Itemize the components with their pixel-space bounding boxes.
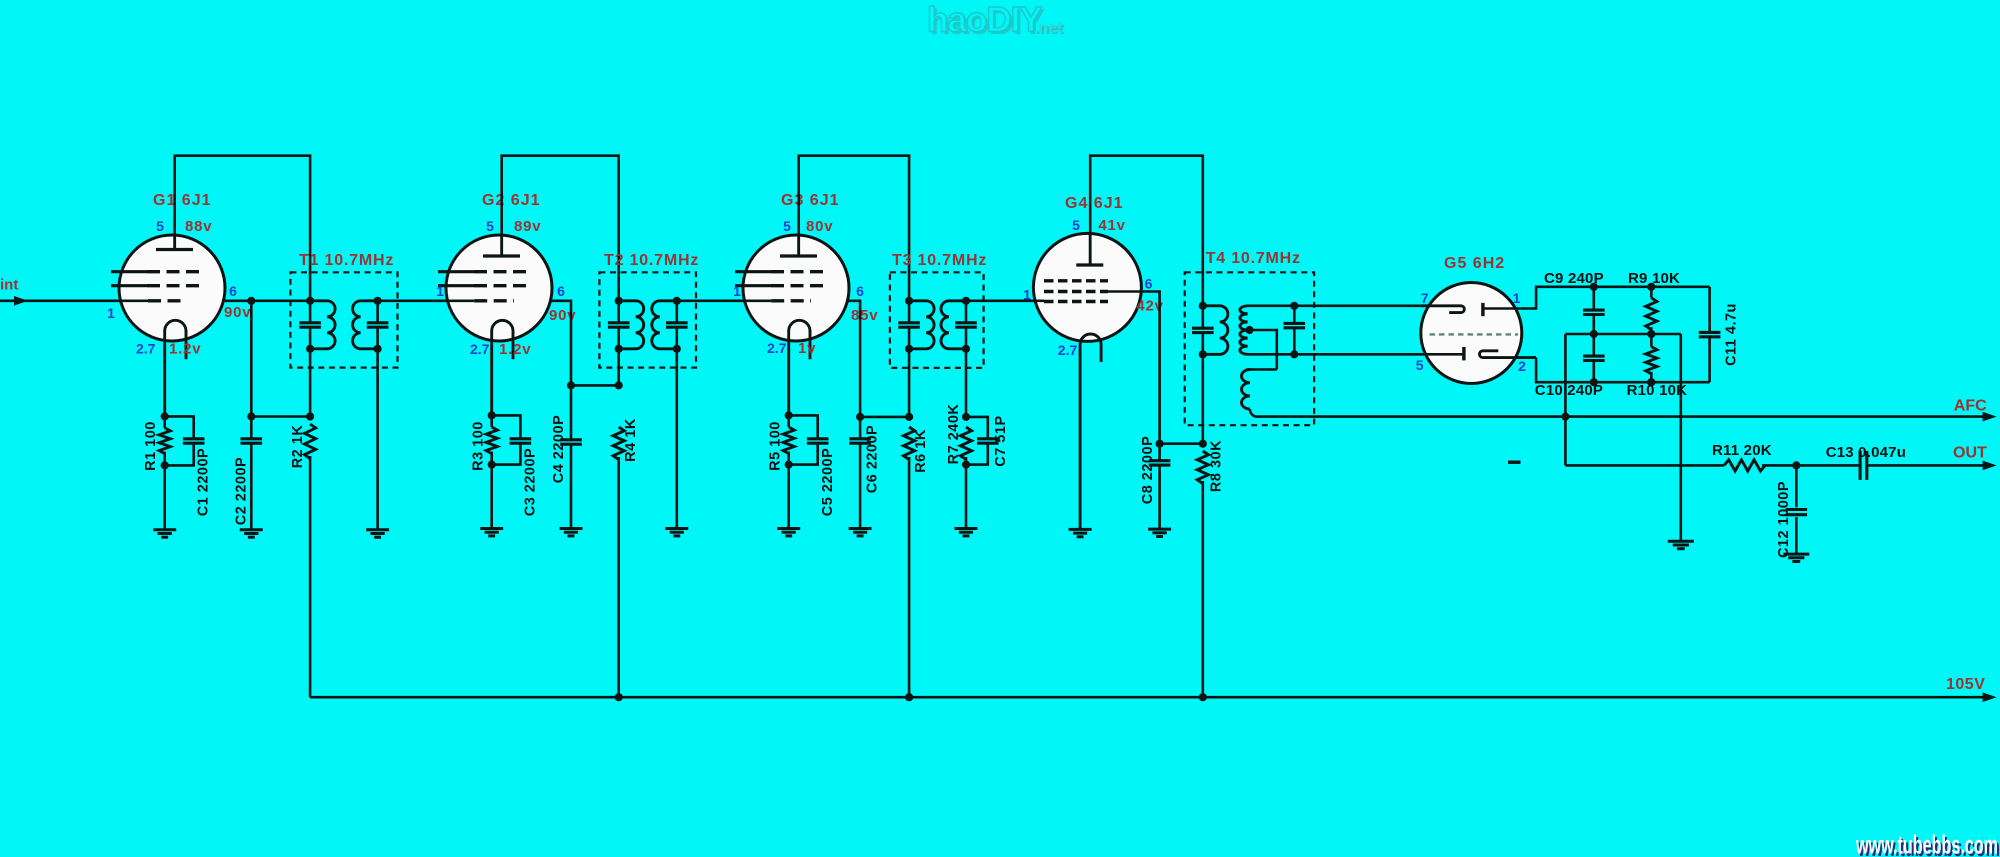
- node T4 primary top: [1199, 302, 1207, 310]
- wire tie C6-R6: [860, 416, 909, 419]
- label pin 5 G3: [783, 218, 791, 234]
- svg-text:R10 10K: R10 10K: [1627, 382, 1688, 399]
- label G4 6J1: [1065, 195, 1123, 212]
- T1 secondary coil: [353, 301, 378, 349]
- wire T4 to G5 pin7: [1294, 304, 1421, 307]
- label C7 51P: [993, 415, 1009, 466]
- svg-text:89v: 89v: [514, 218, 541, 235]
- label pin 1 G1: [107, 305, 115, 321]
- wire resistor midpoint to ground: [1680, 334, 1683, 541]
- svg-text:T3 10.7MHz: T3 10.7MHz: [892, 252, 987, 269]
- wire R1 bottom: [163, 452, 166, 530]
- svg-text:6: 6: [1145, 276, 1153, 292]
- wire R6 to supply rail: [908, 457, 911, 697]
- transformer T4 dashed box: [1185, 272, 1314, 425]
- wire R5 bottom: [787, 452, 790, 529]
- svg-text:OUT: OUT: [1953, 445, 1987, 462]
- G5 diode B cathode hook: [1480, 351, 1537, 358]
- label R9 10K: [1628, 270, 1680, 287]
- www.tubebbs.com watermark: [1855, 830, 2000, 857]
- G4 screen supply rail wire: [1090, 156, 1203, 306]
- svg-text:C3 2200P: C3 2200P: [522, 448, 538, 517]
- G4 cathode arch: [1080, 334, 1101, 529]
- T4 secondary bottom wire: [1248, 353, 1295, 356]
- G2 plate top bar: [483, 254, 520, 257]
- G3 screen supply rail wire: [799, 156, 909, 301]
- svg-text:R7 240K: R7 240K: [946, 404, 962, 465]
- node R10 bottom: [1647, 378, 1655, 386]
- transformer T2 dashed box: [599, 272, 696, 367]
- label G5 6H2: [1444, 255, 1505, 272]
- resistor R3: [486, 427, 497, 454]
- transformer T3 dashed box: [890, 272, 984, 368]
- wire R7 bottom: [965, 457, 968, 529]
- label R2 1K: [290, 425, 306, 469]
- T1 primary coil: [310, 301, 335, 349]
- label G3 6J1: [781, 192, 839, 209]
- transformer T1 dashed box: [290, 272, 397, 367]
- wire G1 plate to T1: [225, 299, 310, 302]
- wire tie C4-R4: [571, 384, 619, 387]
- ground below resistor midpoint: [1668, 541, 1694, 548]
- svg-text:C10 240P: C10 240P: [1535, 382, 1603, 399]
- svg-text:1.2v: 1.2v: [169, 341, 201, 358]
- T4 tertiary coil: [1242, 370, 1250, 410]
- G5 diode B plate: [1462, 347, 1465, 360]
- label R8 30K: [1208, 440, 1224, 492]
- node T1 secondary bottom: [374, 345, 382, 353]
- T4 secondary capacitor: [1284, 323, 1306, 327]
- label C9 240P: [1544, 270, 1604, 287]
- ground below T1 secondary: [366, 530, 389, 537]
- svg-text:105V: 105V: [1946, 676, 1985, 693]
- wire C2 drop: [250, 301, 253, 417]
- svg-text:G5 6H2: G5 6H2: [1444, 255, 1505, 272]
- svg-text:R9 10K: R9 10K: [1628, 270, 1680, 287]
- ground below T2 secondary: [665, 529, 688, 536]
- T3 secondary wire: [965, 301, 968, 417]
- svg-text:R3 100: R3 100: [470, 421, 486, 471]
- label C8 2200P: [1140, 436, 1156, 505]
- resistor R2: [305, 424, 316, 459]
- node R5 bottom: [785, 461, 793, 469]
- svg-text:G3 6J1: G3 6J1: [781, 192, 839, 209]
- ground below G4 cathode: [1069, 529, 1092, 536]
- T1 secondary capacitor: [367, 323, 389, 327]
- label C3 2200P: [522, 448, 538, 517]
- label OUT: [1953, 445, 1987, 462]
- wire T4 to G5 pin5: [1294, 353, 1464, 356]
- svg-text:R11 20K: R11 20K: [1712, 442, 1772, 459]
- label pin 2.7 G3: [767, 340, 787, 356]
- svg-text:AFC: AFC: [1954, 398, 1987, 415]
- G5 diode A cathode hook: [1421, 306, 1464, 313]
- label 88v: [185, 218, 212, 235]
- capacitor C5: [789, 415, 829, 464]
- wire T1 to G2 grid: [378, 299, 475, 302]
- label G2 6J1: [482, 192, 540, 209]
- T4 primary wire: [1202, 306, 1205, 444]
- svg-text:6: 6: [229, 283, 237, 299]
- svg-text:1: 1: [1513, 290, 1521, 306]
- haoDIY.net watermark logo: [927, 1, 1065, 43]
- G2 grid dashed lines: [438, 272, 528, 301]
- node R1 bottom: [161, 461, 169, 469]
- wire midpoint to AFC OUT: [1564, 334, 1567, 465]
- wire G4 plate corner: [1108, 292, 1160, 444]
- svg-text:88v: 88v: [185, 218, 212, 235]
- svg-text:int: int: [0, 277, 18, 294]
- capacitor C3: [492, 415, 532, 464]
- svg-text:T2 10.7MHz: T2 10.7MHz: [604, 252, 699, 269]
- svg-text:5: 5: [1072, 217, 1080, 233]
- wire OUT line left: [1565, 464, 1724, 467]
- resistor R8: [1197, 451, 1208, 484]
- label C6 2200P: [864, 425, 880, 494]
- 105V arrowhead: [1983, 692, 1997, 702]
- ground below C12: [1783, 554, 1809, 561]
- node T3 primary top: [905, 297, 913, 305]
- label R6 1K: [913, 429, 929, 473]
- svg-text:C6 2200P: C6 2200P: [864, 425, 880, 494]
- svg-text:1: 1: [1023, 287, 1031, 303]
- label R7 240K: [946, 404, 962, 465]
- T2 primary wire: [617, 301, 620, 386]
- resistor R11: [1724, 460, 1765, 471]
- label pin 6 G2: [557, 283, 565, 299]
- resistor R6: [903, 427, 914, 460]
- svg-text:90v: 90v: [224, 304, 251, 321]
- node R9 R10 midpoint: [1647, 330, 1655, 338]
- label C4 2200P: [551, 415, 567, 484]
- node R5 top: [785, 411, 793, 419]
- svg-text:T4 10.7MHz: T4 10.7MHz: [1206, 250, 1301, 267]
- label T3 10.7MHz: [892, 252, 987, 269]
- node R7 top: [962, 413, 970, 421]
- label C13 0.047u: [1826, 444, 1906, 461]
- wire detector midpoint tie: [1565, 333, 1680, 336]
- ground below C6: [849, 529, 872, 536]
- G2 cathode arch: [492, 320, 513, 415]
- svg-text:G1 6J1: G1 6J1: [153, 192, 211, 209]
- node R9 top: [1647, 283, 1655, 291]
- T4 secondary capacitor wire: [1293, 306, 1296, 355]
- svg-text:.net: .net: [1034, 20, 1063, 37]
- T4 tertiary top wire: [1250, 368, 1277, 371]
- tube G1 envelope: [119, 235, 225, 341]
- ground below R3: [480, 529, 503, 536]
- G4 pin5 stem wire: [1089, 233, 1092, 265]
- svg-text:5: 5: [1416, 357, 1424, 373]
- G3 cathode arch: [789, 320, 810, 415]
- G1 plate top bar: [156, 248, 193, 251]
- label T1 10.7MHz: [299, 252, 394, 269]
- wire G3 plate corner: [848, 301, 860, 417]
- label pin 6 G4: [1145, 276, 1153, 292]
- svg-text:C9 240P: C9 240P: [1544, 270, 1604, 287]
- T2 primary capacitor: [608, 323, 630, 327]
- node tie R4: [615, 381, 623, 389]
- label 89v: [514, 218, 541, 235]
- node R6 rail: [905, 693, 913, 701]
- node R4 rail: [615, 693, 623, 701]
- node AFC junction: [1561, 413, 1569, 421]
- T3 primary capacitor: [898, 323, 920, 327]
- svg-text:5: 5: [486, 218, 494, 234]
- T2 primary coil: [619, 301, 644, 349]
- capacitor C2: [241, 417, 263, 530]
- resistor R9: [1646, 287, 1657, 334]
- svg-text:C4 2200P: C4 2200P: [551, 415, 567, 484]
- svg-text:1: 1: [733, 283, 741, 299]
- svg-text:6: 6: [856, 283, 864, 299]
- capacitor C13: [1860, 451, 1867, 480]
- node T4 center tap: [1245, 326, 1253, 334]
- label 1v: [798, 340, 816, 357]
- wire C13 to OUT arrow: [1868, 464, 1987, 467]
- svg-text:C13 0.047u: C13 0.047u: [1826, 444, 1906, 461]
- node C9 top: [1590, 283, 1598, 291]
- wire pin1 to top line: [1521, 287, 1710, 309]
- svg-text:R2 1K: R2 1K: [290, 425, 306, 469]
- capacitor C6: [849, 417, 871, 529]
- node T3 secondary bottom: [962, 345, 970, 353]
- label pin 5 G5: [1416, 357, 1424, 373]
- node tie R8: [1199, 440, 1207, 448]
- wire R4 to supply rail: [617, 457, 620, 697]
- svg-text:2.7: 2.7: [1058, 342, 1078, 358]
- node tie C2: [247, 412, 255, 420]
- svg-text:R1 100: R1 100: [143, 421, 159, 471]
- T4 primary capacitor: [1192, 328, 1214, 332]
- node tie C8: [1156, 440, 1164, 448]
- minus polarity mark: [1508, 461, 1521, 464]
- tube G3 envelope: [743, 235, 849, 341]
- ground below R1: [153, 530, 176, 537]
- AFC arrowhead: [1983, 412, 1997, 422]
- wire tertiary to AFC line: [1250, 409, 1987, 417]
- label 41v: [1098, 217, 1125, 234]
- svg-text:2.7: 2.7: [136, 341, 156, 357]
- node tie C6: [856, 413, 864, 421]
- node C10 bottom: [1590, 378, 1598, 386]
- svg-text:R5 100: R5 100: [767, 421, 783, 471]
- wire G3 cathode lead: [787, 415, 790, 427]
- T1 primary wire: [309, 301, 312, 417]
- node T4 primary bottom: [1199, 350, 1207, 358]
- svg-text:1: 1: [436, 283, 444, 299]
- svg-text:85v: 85v: [851, 307, 878, 324]
- capacitor C10: [1583, 334, 1605, 382]
- G3 plate top bar: [780, 254, 817, 257]
- label pin 1 G2: [436, 283, 444, 299]
- G3 pin5 stem wire: [797, 235, 800, 256]
- ground below R7: [955, 529, 978, 536]
- svg-text:G4 6J1: G4 6J1: [1065, 195, 1123, 212]
- OUT arrowhead: [1983, 461, 1997, 471]
- label pin 6 G3: [856, 283, 864, 299]
- G4 grid dashed lines: [1044, 281, 1108, 302]
- label 1.2v: [169, 341, 201, 358]
- wire center tap elbow: [1250, 330, 1277, 370]
- node T3 secondary top: [962, 297, 970, 305]
- tube G2 envelope: [446, 235, 552, 341]
- label 42v: [1136, 298, 1163, 315]
- svg-text:C8 2200P: C8 2200P: [1140, 436, 1156, 505]
- label G1 6J1: [153, 192, 211, 209]
- capacitor C7: [966, 417, 999, 465]
- label pin 2.7 G1: [136, 341, 156, 357]
- node tie C4: [567, 381, 575, 389]
- svg-text:R4 1K: R4 1K: [623, 418, 639, 462]
- svg-text:T1 10.7MHz: T1 10.7MHz: [299, 252, 394, 269]
- wire R11 to C13: [1762, 464, 1859, 467]
- svg-text:7: 7: [1421, 290, 1429, 306]
- T2 secondary capacitor: [666, 323, 688, 327]
- T3 primary coil: [909, 301, 934, 349]
- node R3 bottom: [488, 461, 496, 469]
- G4 plate top bar: [1076, 263, 1103, 266]
- svg-text:90v: 90v: [549, 307, 576, 324]
- node R3 top: [488, 411, 496, 419]
- G1 grid dashed lines: [111, 272, 201, 301]
- node T1 primary top: [306, 297, 314, 305]
- label pin 1 G3: [733, 283, 741, 299]
- G2 pin5 stem wire: [500, 235, 503, 256]
- label R3 100: [470, 421, 486, 471]
- svg-text:C7 51P: C7 51P: [993, 415, 1009, 466]
- T3 secondary coil: [941, 301, 966, 349]
- wire T2 to G3 grid: [677, 299, 771, 302]
- wire pin2 to bottom line: [1536, 358, 1710, 383]
- G5 divider dashed line: [1430, 333, 1519, 335]
- resistor R5: [783, 427, 794, 454]
- label C11 4.7u: [1723, 303, 1739, 366]
- label AFC: [1954, 398, 1987, 415]
- svg-text:C11 4.7u: C11 4.7u: [1723, 303, 1739, 366]
- svg-text:C1 2200P: C1 2200P: [195, 448, 211, 517]
- node T3 primary bottom: [905, 345, 913, 353]
- svg-text:www.tubebbs.com: www.tubebbs.com: [1855, 830, 1998, 857]
- svg-text:C2 2200P: C2 2200P: [233, 457, 249, 526]
- label pin 7: [1421, 290, 1429, 306]
- label pin 5 G1: [156, 218, 164, 234]
- wire input int line: [0, 299, 148, 302]
- svg-text:C12 1000P: C12 1000P: [1776, 481, 1792, 558]
- svg-text:5: 5: [156, 218, 164, 234]
- ground below C4: [560, 529, 583, 536]
- label pin 2.7 G2: [470, 341, 490, 357]
- node T2 primary top: [615, 297, 623, 305]
- ground below R5: [777, 529, 800, 536]
- T3 primary wire: [908, 301, 911, 417]
- svg-text:C5 2200P: C5 2200P: [820, 448, 836, 517]
- svg-text:80v: 80v: [806, 218, 833, 235]
- tube G5 envelope: [1421, 283, 1522, 384]
- label pin 2 G5: [1518, 358, 1526, 374]
- node R8 rail: [1199, 693, 1207, 701]
- T1 primary capacitor: [299, 323, 321, 327]
- T3 secondary capacitor: [955, 323, 977, 327]
- capacitor C8: [1149, 444, 1171, 529]
- label pin 2.7 G4: [1058, 342, 1078, 358]
- label 1.2v stage2: [499, 341, 531, 358]
- node T1 secondary top: [374, 297, 382, 305]
- label pin 6 G1: [229, 283, 237, 299]
- label C12 1000P: [1776, 481, 1792, 558]
- wire T3 to G4 grid: [966, 299, 1044, 302]
- label T2 10.7MHz: [604, 252, 699, 269]
- label int: [0, 277, 18, 294]
- capacitor C12: [1786, 465, 1808, 554]
- resistor R4: [613, 427, 624, 460]
- node T2 primary bottom: [615, 345, 623, 353]
- wire R8 to supply rail: [1202, 481, 1205, 697]
- capacitor C1: [165, 416, 205, 465]
- svg-text:6: 6: [557, 283, 565, 299]
- label pin 5 G4: [1072, 217, 1080, 233]
- node T4 secondary cap top: [1290, 302, 1298, 310]
- G1 screen supply rail wire: [175, 156, 310, 301]
- svg-text:41v: 41v: [1098, 217, 1125, 234]
- wire G1 cathode lead: [163, 416, 166, 428]
- svg-text:2.7: 2.7: [470, 341, 490, 357]
- ground below C8: [1148, 529, 1171, 536]
- svg-text:2: 2: [1518, 358, 1526, 374]
- tube G4 envelope: [1033, 233, 1141, 341]
- wire tie C2-R2: [251, 415, 310, 418]
- svg-text:1v: 1v: [798, 340, 816, 357]
- node tie R6: [905, 413, 913, 421]
- node T1 primary bottom: [306, 345, 314, 353]
- capacitor C11: [1699, 287, 1721, 382]
- label R5 100: [767, 421, 783, 471]
- G1 pin5 stem wire: [173, 235, 176, 250]
- wire tie C8-R8: [1160, 442, 1203, 445]
- label C10 240P: [1535, 382, 1603, 399]
- G5 diode A plate: [1483, 303, 1521, 316]
- svg-text:R8 30K: R8 30K: [1208, 440, 1224, 492]
- resistor R10: [1646, 334, 1657, 382]
- G3 grid dashed lines: [735, 272, 825, 301]
- resistor R7: [960, 427, 971, 460]
- label R1 100: [143, 421, 159, 471]
- node C12 tap: [1792, 461, 1800, 469]
- node R1 top: [161, 412, 169, 420]
- node G1 plate junction: [247, 297, 255, 305]
- G2 screen supply rail wire: [502, 156, 619, 301]
- label C2 2200P: [233, 457, 249, 526]
- G1 cathode arch: [165, 320, 186, 416]
- svg-text:G2 6J1: G2 6J1: [482, 192, 540, 209]
- label T4 10.7MHz: [1206, 250, 1301, 267]
- label pin 1 G4: [1023, 287, 1031, 303]
- wire G2 cathode lead: [490, 415, 493, 427]
- label 90v stage2: [549, 307, 576, 324]
- label 80v: [806, 218, 833, 235]
- label 85v: [851, 307, 878, 324]
- label R4 1K: [623, 418, 639, 462]
- svg-text:2.7: 2.7: [767, 340, 787, 356]
- label 90v: [224, 304, 251, 321]
- svg-text:1.2v: 1.2v: [499, 341, 531, 358]
- label pin 1 G5: [1513, 290, 1521, 306]
- wire R2 to supply rail: [309, 456, 312, 697]
- node C9 C10 midpoint: [1590, 330, 1598, 338]
- label pin 5 G2: [486, 218, 494, 234]
- node T2 secondary top: [673, 297, 681, 305]
- node T2 secondary bottom: [673, 345, 681, 353]
